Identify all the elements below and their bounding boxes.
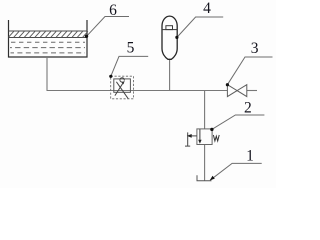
svg-text:4: 4 <box>203 0 211 17</box>
svg-text:1: 1 <box>246 147 254 164</box>
svg-text:5: 5 <box>127 39 135 56</box>
svg-text:6: 6 <box>109 2 117 19</box>
svg-text:2: 2 <box>244 99 252 116</box>
svg-text:3: 3 <box>251 40 259 57</box>
